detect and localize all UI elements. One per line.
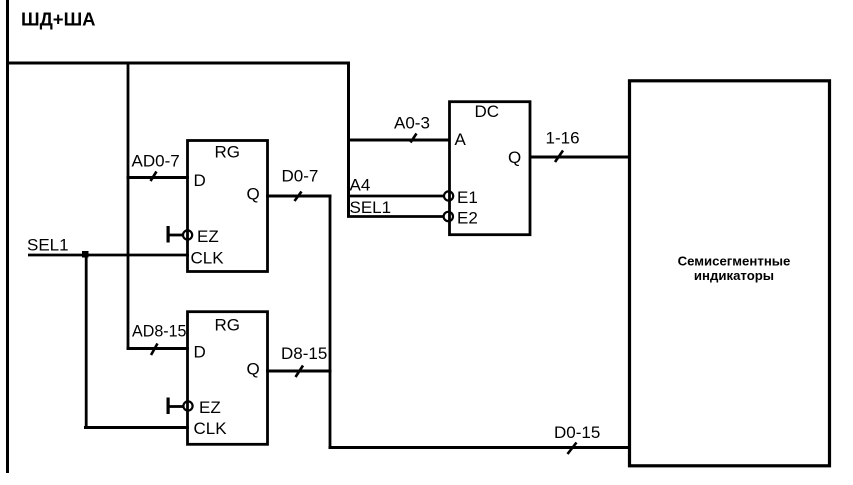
svg-text:A: A xyxy=(455,130,467,149)
svg-text:A4: A4 xyxy=(350,176,371,195)
svg-text:E1: E1 xyxy=(457,188,478,207)
svg-text:CLK: CLK xyxy=(194,419,228,438)
svg-text:CLK: CLK xyxy=(191,249,225,268)
svg-text:RG: RG xyxy=(215,316,241,335)
svg-text:D0-7: D0-7 xyxy=(282,167,319,186)
svg-text:D: D xyxy=(194,171,206,190)
svg-text:EZ: EZ xyxy=(197,227,219,246)
svg-text:D8-15: D8-15 xyxy=(281,344,327,363)
svg-text:A0-3: A0-3 xyxy=(394,114,430,133)
svg-text:индикаторы: индикаторы xyxy=(694,268,774,283)
svg-text:D0-15: D0-15 xyxy=(554,423,600,442)
svg-text:1-16: 1-16 xyxy=(546,129,580,148)
svg-text:RG: RG xyxy=(215,143,241,162)
svg-text:Семисегментные: Семисегментные xyxy=(678,254,791,269)
svg-text:DC: DC xyxy=(475,102,500,121)
svg-text:Q: Q xyxy=(508,148,521,167)
svg-text:SEL1: SEL1 xyxy=(350,198,392,217)
svg-text:ШД+ША: ШД+ША xyxy=(21,9,96,30)
svg-text:E2: E2 xyxy=(457,209,478,228)
svg-text:Q: Q xyxy=(247,185,260,204)
svg-text:D: D xyxy=(194,343,206,362)
svg-text:AD8-15: AD8-15 xyxy=(132,322,187,341)
svg-text:SEL1: SEL1 xyxy=(27,236,69,255)
svg-text:EZ: EZ xyxy=(199,398,221,417)
svg-text:AD0-7: AD0-7 xyxy=(132,152,180,171)
svg-text:Q: Q xyxy=(247,360,260,379)
